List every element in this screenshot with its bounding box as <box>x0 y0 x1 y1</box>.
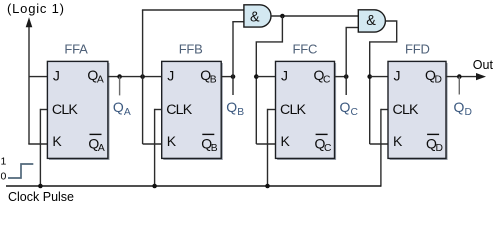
wire CLK stub FFC <box>268 109 276 111</box>
svg-text:D: D <box>435 75 442 86</box>
and-gate U2 <box>358 10 385 32</box>
svg-text:K: K <box>281 133 291 149</box>
wire QA output FFA to J FFB <box>108 76 161 78</box>
wire AND2 lower input <box>346 27 359 29</box>
wire CLK drop FFC <box>267 109 269 186</box>
node QC junction <box>344 74 349 79</box>
wire K input FFA <box>28 143 47 145</box>
wire CLK drop FFB <box>154 109 156 186</box>
svg-text:Clock Pulse: Clock Pulse <box>8 190 74 204</box>
svg-text:J: J <box>281 67 288 83</box>
flip-flop FFB <box>162 61 223 160</box>
wire QC output FFC <box>335 76 347 78</box>
svg-text:K: K <box>52 133 62 149</box>
wire QA riser to AND1 input <box>142 10 144 144</box>
wire QA tap stub <box>119 77 121 96</box>
wire AND1 upper input <box>142 9 244 11</box>
label QA <box>113 99 131 118</box>
label QC <box>340 99 359 118</box>
node FFC J/K feed junction <box>254 74 259 79</box>
wire CLK stub FFA <box>40 109 47 111</box>
wire AND1 lower input <box>232 21 244 23</box>
svg-text:CLK: CLK <box>280 102 307 118</box>
wire QD output to Out arrow <box>446 73 486 80</box>
flip-flop FFC <box>276 61 337 160</box>
node Logic 1 supply arrow <box>26 17 33 144</box>
wire clock bus <box>6 185 381 187</box>
wire QB riser to AND1 and tap stub <box>232 22 234 95</box>
svg-text:D: D <box>465 107 472 118</box>
flip-flop FFD <box>388 61 448 160</box>
svg-text:FFC: FFC <box>293 42 318 57</box>
wire CLK drop FFD <box>380 109 382 187</box>
node clock junction FFA <box>38 184 43 189</box>
flip-flop FFA <box>47 61 109 160</box>
svg-text:0: 0 <box>1 171 7 183</box>
wire AND1 output down jog <box>256 16 282 144</box>
svg-text:B: B <box>211 143 218 154</box>
wire CLK drop FFA <box>39 109 41 186</box>
svg-text:D: D <box>436 143 443 154</box>
svg-text:Out: Out <box>473 58 494 72</box>
svg-text:CLK: CLK <box>52 102 79 118</box>
wire K input FFB <box>143 143 162 145</box>
svg-text:FFA: FFA <box>64 42 88 57</box>
svg-text:C: C <box>351 107 359 118</box>
wire QB output FFB <box>221 76 233 78</box>
svg-text:CLK: CLK <box>393 102 420 118</box>
svg-text:Q: Q <box>226 99 237 115</box>
svg-text:&: & <box>250 9 260 26</box>
svg-text:Q: Q <box>454 99 465 115</box>
wire K input FFC <box>256 143 275 145</box>
wire AND1 output to AND2 input <box>271 15 358 17</box>
node FFD J/K feed junction <box>367 74 372 79</box>
svg-text:J: J <box>53 67 60 83</box>
wire CLK stub FFB <box>155 109 162 111</box>
svg-text:CLK: CLK <box>166 102 193 118</box>
node AND1 output junction <box>280 14 285 19</box>
svg-text:A: A <box>97 75 104 86</box>
node clock junction FFC <box>265 184 270 189</box>
svg-text:A: A <box>124 107 131 118</box>
wire CLK stub FFD <box>381 109 388 111</box>
svg-text:C: C <box>324 143 332 154</box>
svg-text:&: & <box>366 12 376 29</box>
label QB <box>226 99 244 118</box>
clock input waveform <box>8 164 33 178</box>
svg-text:(Logic 1): (Logic 1) <box>7 1 65 16</box>
wire J input FFD <box>370 76 388 78</box>
svg-text:J: J <box>167 67 174 83</box>
wire J input FFC <box>256 76 275 78</box>
node QD tap junction <box>457 74 462 79</box>
node QB junction <box>231 74 236 79</box>
svg-text:FFD: FFD <box>405 42 430 57</box>
svg-text:K: K <box>167 133 177 149</box>
wire QC riser to AND2 and tap stub <box>345 28 347 96</box>
svg-text:K: K <box>393 133 403 149</box>
label QD <box>454 99 472 118</box>
svg-text:1: 1 <box>1 155 7 167</box>
and-gate U1 <box>244 5 271 27</box>
svg-text:B: B <box>210 75 217 86</box>
svg-text:Q: Q <box>113 99 124 115</box>
node QA tap junction <box>117 74 122 79</box>
svg-text:A: A <box>98 143 105 154</box>
wire AND2 output jog <box>370 21 397 144</box>
svg-text:Q: Q <box>340 99 351 115</box>
wire QD tap stub <box>458 77 460 95</box>
node QA branch junction <box>140 74 145 79</box>
wire K input FFD <box>370 143 388 145</box>
svg-text:J: J <box>394 67 401 83</box>
wire J input FFA <box>29 76 47 78</box>
svg-text:FFB: FFB <box>179 42 203 57</box>
svg-text:C: C <box>323 75 331 86</box>
node clock junction FFB <box>152 184 157 189</box>
svg-text:B: B <box>237 107 244 118</box>
